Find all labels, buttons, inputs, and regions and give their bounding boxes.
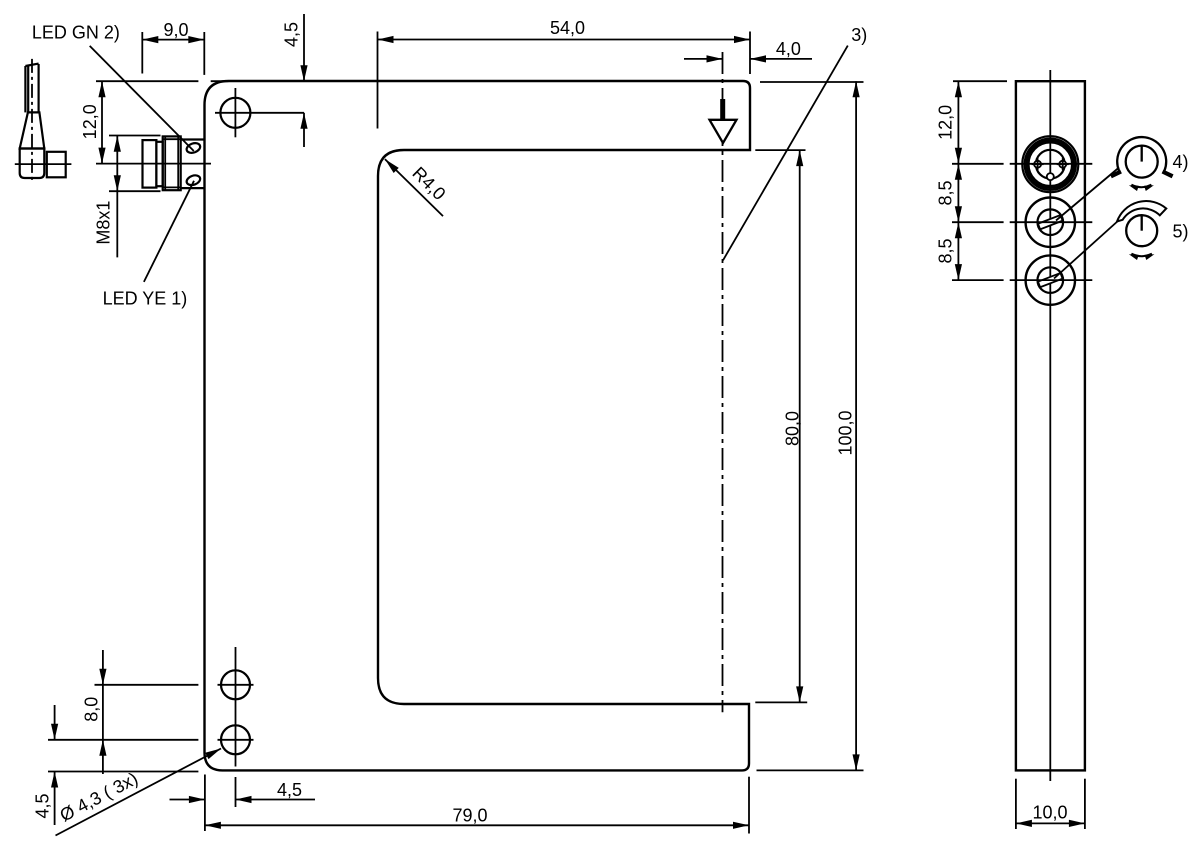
mounting hole bottom A [221, 670, 250, 699]
dimension 100,0 [757, 81, 864, 770]
dimension 10,0 [1016, 779, 1085, 829]
turn arrow under icon 5 [1128, 252, 1155, 260]
dimension 80,0 [755, 150, 807, 702]
label diameter 4,3 (3x) with leader [56, 745, 223, 835]
dimension 12,0 side [936, 81, 963, 280]
M8 pin bottom [1047, 173, 1054, 180]
svg-text:3): 3) [851, 25, 867, 45]
label LED YE 1) [103, 181, 194, 309]
label LED GN 2) [32, 23, 194, 151]
svg-text:12,0: 12,0 [80, 104, 100, 139]
side view vertical centerline [1049, 70, 1051, 781]
svg-text:LED YE 1): LED YE 1) [103, 289, 188, 309]
dimension 8,5 lower [936, 222, 963, 280]
leader to icon 4 [1056, 168, 1119, 221]
svg-text:5): 5) [1173, 222, 1189, 242]
svg-text:10,0: 10,0 [1032, 803, 1067, 823]
dimension 79,0 [205, 775, 749, 834]
M8 pin left [1032, 158, 1044, 170]
svg-text:4,0: 4,0 [776, 39, 801, 59]
dimension 8,0 [82, 650, 199, 774]
crosshair hole B [218, 739, 254, 741]
cable plug drawing [15, 59, 72, 181]
side dim extension lines [952, 81, 1092, 280]
svg-text:8,0: 8,0 [82, 697, 102, 722]
turn arrow under icon 4 [1128, 183, 1155, 191]
svg-text:80,0: 80,0 [783, 411, 803, 446]
dimension 8,5 upper [936, 164, 963, 222]
label R4,0 with leader [382, 157, 449, 217]
potentiometer 1 [1026, 198, 1075, 247]
svg-text:54,0: 54,0 [550, 18, 585, 38]
mounting hole top [215, 88, 304, 137]
dimension 4,5 left [33, 705, 199, 825]
svg-text:4): 4) [1173, 152, 1189, 172]
M8 threaded barrel [163, 136, 181, 190]
dimension 9,0 [142, 20, 204, 75]
adjuster icon 5 [1117, 201, 1166, 246]
side view body outline [1016, 81, 1085, 770]
svg-text:100,0: 100,0 [836, 410, 856, 455]
light direction marker [710, 99, 737, 143]
dimension M8x1 [94, 136, 161, 258]
svg-text:8,5: 8,5 [936, 238, 956, 263]
potentiometer 2 [1026, 255, 1075, 304]
M8 pin right [1057, 158, 1069, 170]
centerline through bottom holes [235, 647, 237, 767]
svg-text:8,5: 8,5 [936, 180, 956, 205]
dimension 12,0 [80, 81, 229, 163]
dimension 4,5 top [282, 14, 308, 147]
dimension 54,0 [378, 18, 751, 129]
dimension 4,0 [684, 39, 812, 63]
connector centerline [96, 163, 211, 165]
svg-text:79,0: 79,0 [452, 805, 487, 825]
optical axis dash-dot line [722, 52, 724, 712]
LED green window [185, 141, 201, 154]
label 3) with leader [723, 25, 867, 260]
svg-text:LED GN 2): LED GN 2) [32, 23, 120, 43]
crosshair hole A [218, 684, 254, 686]
leader to icon 5 [1054, 221, 1118, 279]
svg-text:4,5: 4,5 [33, 793, 53, 818]
adjuster icon 4 [1111, 137, 1173, 178]
svg-text:12,0: 12,0 [936, 105, 956, 140]
svg-text:9,0: 9,0 [163, 20, 188, 40]
svg-text:4,5: 4,5 [277, 780, 302, 800]
front view body outline [205, 81, 751, 770]
svg-text:M8x1: M8x1 [94, 201, 114, 245]
mounting hole bottom B [221, 725, 250, 754]
side view M8 connector circles [1022, 136, 1078, 192]
M8 connector cap rect [143, 140, 157, 188]
dimension 4,5 bottom [170, 777, 316, 807]
svg-text:4,5: 4,5 [282, 22, 302, 47]
connector flange [181, 140, 205, 189]
LED yellow window [185, 174, 201, 187]
M8 connector neck rect [156, 142, 162, 186]
